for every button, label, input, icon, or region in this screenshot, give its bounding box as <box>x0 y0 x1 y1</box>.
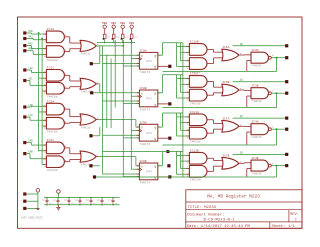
svg-text:IC4A: IC4A <box>251 121 258 124</box>
svg-text:74HC74: 74HC74 <box>139 109 150 112</box>
svg-text:74AC08: 74AC08 <box>47 169 58 172</box>
svg-text:IC10B: IC10B <box>190 41 199 44</box>
svg-text:74AC08: 74AC08 <box>47 96 58 99</box>
svg-text:IC4B: IC4B <box>251 157 258 160</box>
svg-text:MB3: MB3 <box>129 22 134 25</box>
svg-text:IC11B: IC11B <box>190 149 199 152</box>
svg-text:LAST USED M223: LAST USED M223 <box>21 217 43 220</box>
svg-text:IC10C: IC10C <box>190 73 199 76</box>
svg-text:IC6A: IC6A <box>222 46 229 49</box>
svg-text:74HC74: 74HC74 <box>139 182 150 185</box>
svg-text:IC7A: IC7A <box>222 117 229 120</box>
svg-text:74HC08: 74HC08 <box>190 179 201 182</box>
svg-text:IC1A: IC1A <box>47 28 54 31</box>
svg-text:MA3: MA3 <box>28 48 33 51</box>
svg-text:IC2A: IC2A <box>47 100 54 103</box>
svg-text:LDA: LDA <box>28 67 33 70</box>
svg-text:74HC74: 74HC74 <box>139 143 150 146</box>
svg-text:7474: 7474 <box>145 132 152 135</box>
svg-text:Sheet: 1/1: Sheet: 1/1 <box>272 224 296 229</box>
svg-text:IC11A: IC11A <box>190 111 199 114</box>
svg-text:IC3B: IC3B <box>251 85 258 88</box>
svg-text:MB2: MB2 <box>120 22 125 25</box>
svg-text:74AC32: 74AC32 <box>80 53 90 56</box>
svg-text:74HC00: 74HC00 <box>251 100 261 103</box>
svg-text:1: 1 <box>295 219 297 223</box>
svg-text:74AC08: 74AC08 <box>47 59 58 62</box>
svg-text:IC3A: IC3A <box>251 49 258 52</box>
svg-text:74AC32: 74AC32 <box>80 126 90 129</box>
svg-text:IC6B: IC6B <box>222 81 229 84</box>
svg-text:REV:: REV: <box>290 213 299 217</box>
svg-text:74HC00: 74HC00 <box>251 172 261 175</box>
svg-text:IC8A: IC8A <box>139 49 146 52</box>
svg-text:ENB: ENB <box>28 151 33 154</box>
svg-text:CLK: CLK <box>28 114 33 117</box>
svg-text:IC7B: IC7B <box>222 154 229 157</box>
svg-text:7474: 7474 <box>145 171 152 174</box>
svg-text:74HC00: 74HC00 <box>251 64 261 67</box>
svg-text:MA, MB Register M223: MA, MB Register M223 <box>207 195 260 200</box>
svg-text:74HC74: 74HC74 <box>139 71 150 74</box>
svg-text:74HC08: 74HC08 <box>190 102 201 105</box>
svg-text:MB0: MB0 <box>102 22 107 25</box>
svg-text:74AC32: 74AC32 <box>80 91 90 94</box>
svg-text:IC9B: IC9B <box>139 160 146 163</box>
svg-text:B-CS-M223-B-1: B-CS-M223-B-1 <box>204 219 236 223</box>
svg-text:IC9A: IC9A <box>139 121 146 124</box>
svg-text:IC8B: IC8B <box>139 87 146 90</box>
svg-text:7474: 7474 <box>145 98 152 101</box>
svg-text:74AC32: 74AC32 <box>80 163 90 166</box>
svg-text:MA1: MA1 <box>28 36 33 39</box>
svg-text:Document Number:: Document Number: <box>187 213 224 218</box>
svg-text:Date: 1/14/2017 12:45:44 PM: Date: 1/14/2017 12:45:44 PM <box>187 224 251 229</box>
svg-text:IC1C: IC1C <box>47 67 54 70</box>
svg-text:74HC08: 74HC08 <box>190 140 201 143</box>
svg-text:74AC08: 74AC08 <box>47 131 58 134</box>
svg-text:IC2C: IC2C <box>47 139 54 142</box>
svg-text:74HC00: 74HC00 <box>251 136 261 139</box>
svg-text:SEL: SEL <box>28 78 33 81</box>
svg-text:MB1: MB1 <box>111 22 116 25</box>
svg-text:MA0: MA0 <box>28 30 33 33</box>
svg-text:7474: 7474 <box>145 60 152 63</box>
svg-text:ENA: ENA <box>28 140 33 143</box>
svg-text:TITLE: M223X: TITLE: M223X <box>187 206 216 210</box>
svg-text:MA2: MA2 <box>28 43 33 46</box>
